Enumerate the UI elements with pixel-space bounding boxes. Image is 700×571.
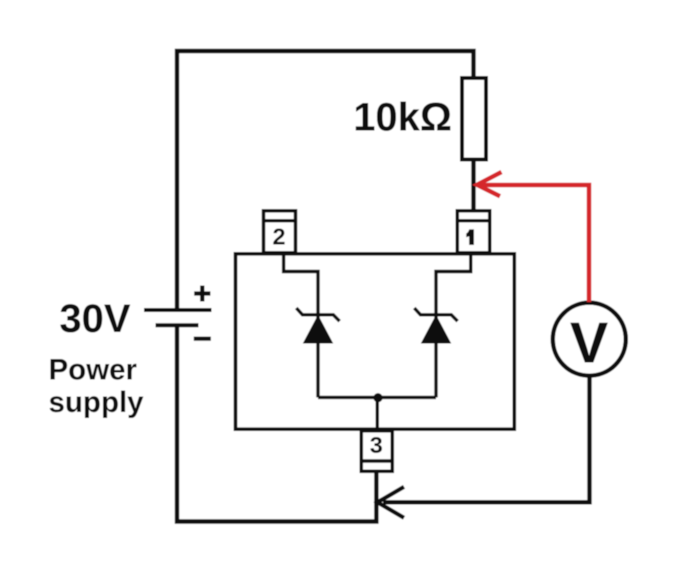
svg-text:3: 3: [370, 432, 383, 458]
svg-text:2: 2: [272, 224, 285, 250]
svg-text:Power: Power: [49, 353, 138, 386]
svg-text:V: V: [570, 312, 608, 376]
svg-text:10kΩ: 10kΩ: [353, 96, 452, 140]
svg-text:supply: supply: [49, 386, 145, 419]
svg-text:30V: 30V: [59, 297, 130, 341]
